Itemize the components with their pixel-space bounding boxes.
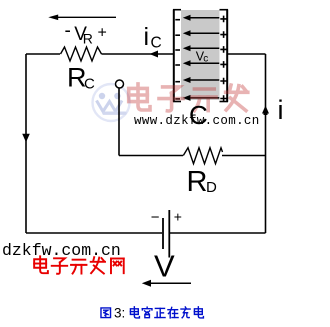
- capacitor C : left plate: [173, 10, 181, 102]
- caption: 图3: 电容正在充电 (blue): [101, 308, 111, 318]
- watermark: www.dzkfw.com.cn small red text: [134, 114, 260, 128]
- label: - v_R +: [65, 21, 107, 47]
- svg-text:C: C: [189, 100, 208, 130]
- wire: R_C to capacitor left plate: [102, 53, 174, 55]
- battery polarity labels: [151, 209, 182, 227]
- capacitor C : negative charge signs on left plate: [175, 20, 180, 99]
- wire: bottom horizontal left of battery: [26, 232, 162, 234]
- wire: from terminal down to R_D branch: [118, 88, 120, 155]
- label C (capacitor): [189, 100, 208, 130]
- battery V : long (positive) plate: [168, 210, 170, 258]
- svg-text:R: R: [187, 166, 208, 198]
- svg-text:c: c: [203, 53, 208, 64]
- wire: capacitor right plate to right corner: [228, 53, 266, 55]
- wire: R_D branch left segment: [119, 155, 183, 157]
- label R_C: [67, 63, 95, 93]
- wire: right vertical: [265, 54, 267, 233]
- wire: top-left vertical (left branch of loop): [25, 54, 27, 233]
- label V (battery): [154, 249, 175, 284]
- resistor R_C: [61, 47, 102, 61]
- wire: top horizontal from left corner to R_C: [26, 53, 60, 55]
- arrow: current i on right wire (pointing up): [262, 106, 269, 116]
- capacitor C : right plate: [220, 10, 229, 102]
- svg-text:-: -: [65, 21, 71, 42]
- svg-text:C: C: [151, 35, 162, 52]
- watermark: red logo text 电子开发网 bottom-left: [34, 256, 124, 273]
- svg-text:3:: 3:: [114, 306, 125, 321]
- svg-text:C: C: [84, 76, 95, 93]
- battery V : short (negative) plate: [162, 218, 164, 249]
- svg-text:i: i: [278, 95, 284, 125]
- svg-text:i: i: [144, 23, 150, 51]
- node: open terminal circle below top wire: [116, 80, 124, 88]
- svg-text:D: D: [206, 179, 217, 196]
- label i: [278, 95, 284, 125]
- watermark: dzkfw.com.cn black text bottom-left: [2, 241, 121, 260]
- svg-text:+: +: [174, 209, 182, 225]
- resistor R_D: [183, 148, 222, 164]
- svg-text:R: R: [83, 31, 93, 47]
- arrow: current direction on left wire (pointing down): [22, 134, 30, 142]
- capacitor C : electric field arrows (pointing left): [183, 15, 220, 101]
- watermark: big red brush characters 电子开发网: [129, 84, 248, 111]
- svg-text:+: +: [98, 24, 107, 41]
- wire: bottom horizontal right of battery: [170, 232, 266, 234]
- label R_D: [187, 166, 218, 198]
- current arrow i_C (arrowhead on top wire, pointing left): [150, 51, 159, 58]
- capacitor C : positive charge signs on right plate: [220, 16, 227, 102]
- label i_C: [144, 23, 162, 52]
- arrow: below battery (pointing left): [142, 280, 191, 287]
- watermark: W logo circle: [93, 84, 130, 121]
- label v_c (on dielectric): [196, 50, 208, 65]
- arrow: v_R reference arrow (pointing left) above R_C: [48, 15, 116, 21]
- svg-text:dzkfw.com.cn: dzkfw.com.cn: [2, 241, 121, 260]
- capacitor C : dielectric gray fill: [181, 10, 220, 100]
- svg-text:V: V: [154, 249, 175, 284]
- wire: R_D branch right segment: [222, 155, 266, 157]
- svg-text:−: −: [151, 209, 160, 226]
